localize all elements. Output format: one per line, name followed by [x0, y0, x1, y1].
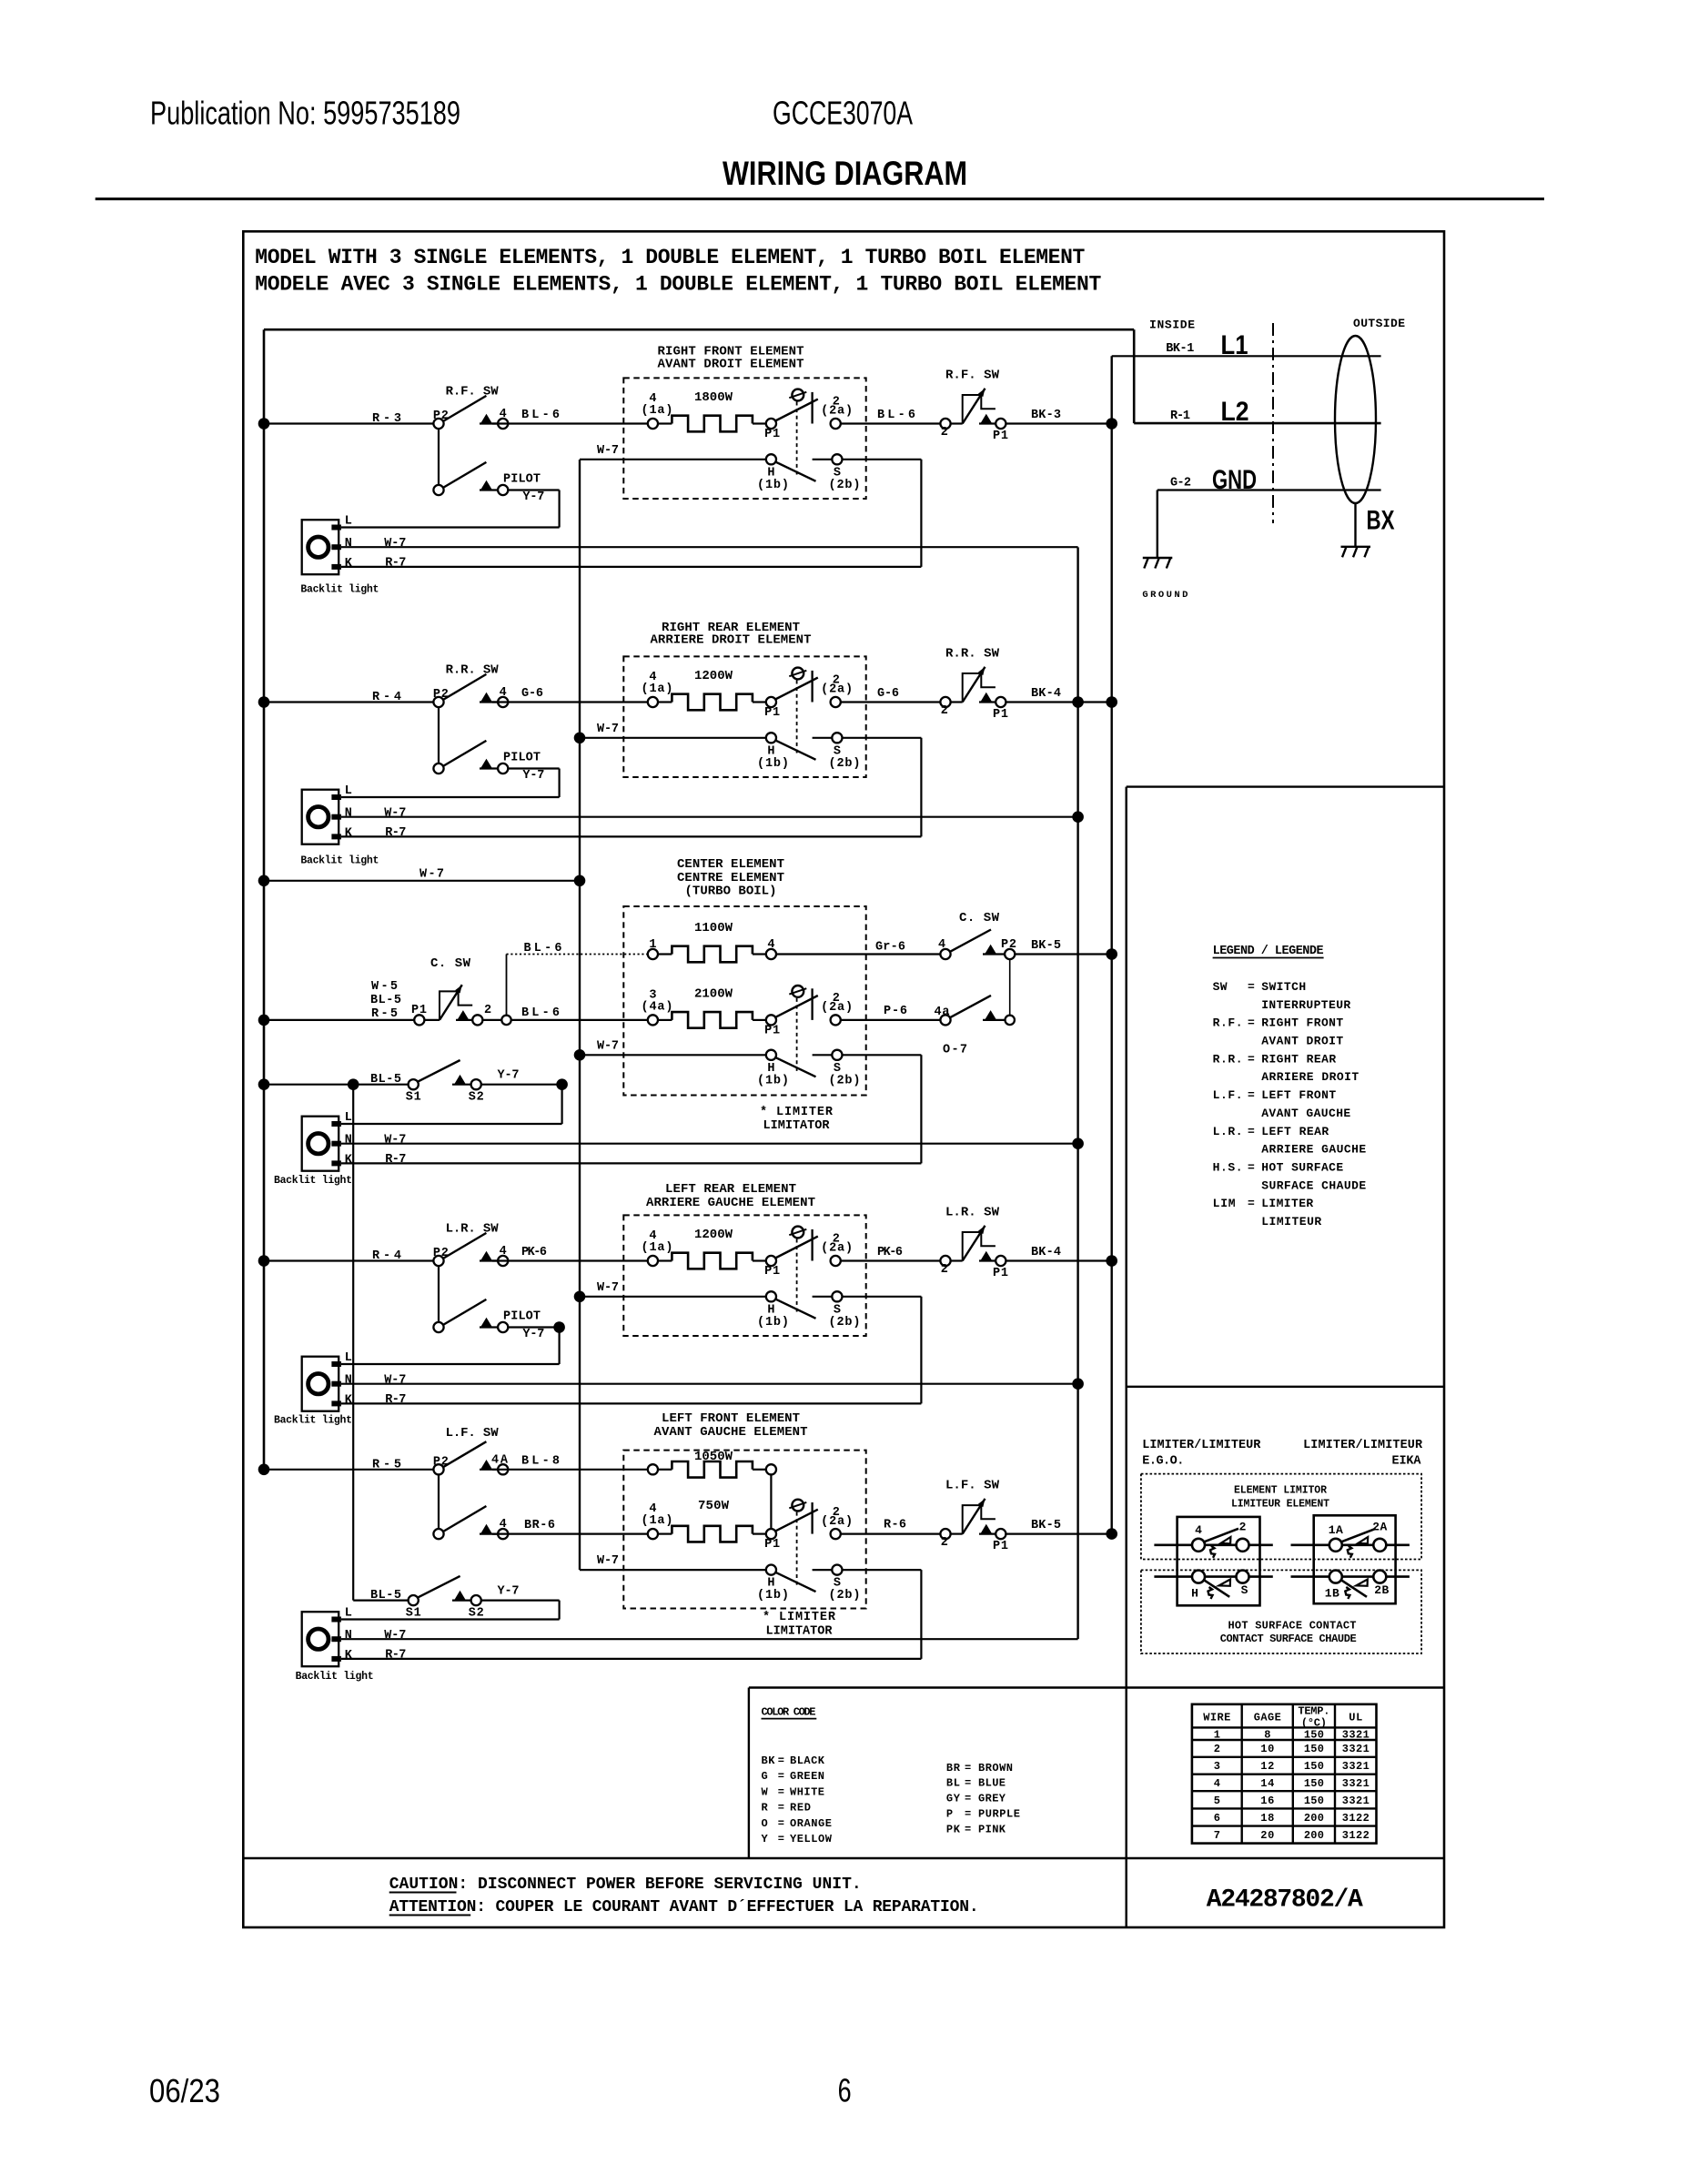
wire L2 (R-1): [1134, 422, 1380, 425]
svg-text:INTERRUPTEUR: INTERRUPTEUR: [1261, 998, 1350, 1012]
wire R-7 (lamp K): [341, 566, 921, 568]
svg-text:4: 4: [938, 938, 945, 952]
svg-text:150: 150: [1304, 1729, 1324, 1742]
svg-text:R.R. SW: R.R. SW: [945, 647, 1000, 662]
svg-text:Backlit light: Backlit light: [274, 1415, 352, 1427]
svg-text:R-7: R-7: [385, 1648, 406, 1662]
svg-text:W-7: W-7: [597, 444, 619, 458]
svg-text:MODEL WITH 3 SINGLE ELEMENTS,: MODEL WITH 3 SINGLE ELEMENTS, 1 DOUBLE E…: [255, 246, 1085, 269]
switch L.F. SW second contact: [438, 1474, 440, 1533]
svg-text:ARRIERE GAUCHE ELEMENT: ARRIERE GAUCHE ELEMENT: [646, 1196, 815, 1210]
wire R-7 (lamp K): [341, 1402, 921, 1404]
svg-text:W-7: W-7: [384, 807, 406, 821]
svg-text:Backlit light: Backlit light: [300, 584, 379, 596]
svg-text:Y-7: Y-7: [498, 1585, 520, 1599]
svg-text:O-7: O-7: [943, 1043, 967, 1057]
svg-text:K: K: [345, 826, 353, 840]
svg-text:AVANT GAUCHE: AVANT GAUCHE: [1261, 1107, 1350, 1120]
svg-text:L: L: [345, 784, 352, 798]
svg-text:PURPLE: PURPLE: [978, 1808, 1020, 1821]
svg-text:L.F.: L.F.: [1213, 1088, 1243, 1102]
backlit light L.R.: [302, 1357, 339, 1411]
wire R-3: [264, 422, 439, 424]
svg-text:P2: P2: [1001, 938, 1016, 952]
svg-text:Y-7: Y-7: [522, 1328, 544, 1341]
svg-text:G-2: G-2: [1170, 477, 1191, 490]
svg-text:CONTACT SURFACE CHAUDE: CONTACT SURFACE CHAUDE: [1220, 1633, 1357, 1645]
svg-text:=: =: [1248, 1052, 1255, 1066]
wire S return (R-7 riser): [843, 1296, 922, 1298]
svg-text:W-7: W-7: [384, 1134, 406, 1148]
svg-text:GREEN: GREEN: [790, 1770, 824, 1783]
svg-text:SURFACE CHAUDE: SURFACE CHAUDE: [1261, 1178, 1366, 1192]
svg-text:3321: 3321: [1342, 1760, 1370, 1773]
limiter wires top row: [1154, 1544, 1272, 1547]
svg-text:SWITCH: SWITCH: [1261, 980, 1306, 994]
svg-text:W-7: W-7: [597, 1281, 619, 1295]
svg-text:1800W: 1800W: [694, 390, 733, 405]
svg-text:3321: 3321: [1342, 1743, 1370, 1755]
svg-text:L.R.: L.R.: [1213, 1125, 1243, 1138]
svg-text:(TURBO BOIL): (TURBO BOIL): [685, 885, 777, 899]
wire bus W-7 neutral (x=1184): [1076, 547, 1078, 1639]
svg-text:P1: P1: [764, 1265, 780, 1279]
backlit light L.F.: [302, 1612, 339, 1666]
contacts H / S: [766, 1050, 776, 1060]
element R.R. dashed box: [623, 656, 865, 777]
svg-text:L: L: [345, 1351, 352, 1365]
svg-text:CENTER ELEMENT: CENTER ELEMENT: [677, 857, 784, 872]
svg-text:=: =: [778, 1817, 784, 1830]
svg-text:(1b): (1b): [757, 479, 789, 492]
svg-text:ARRIERE DROIT ELEMENT: ARRIERE DROIT ELEMENT: [651, 633, 812, 648]
wire BR-6: [492, 1532, 652, 1534]
svg-text:BL-5: BL-5: [370, 1589, 401, 1603]
contact P1 + thermostat: [766, 1529, 776, 1539]
wire L2 drop to R-1: [1133, 329, 1136, 423]
svg-text:W-7: W-7: [597, 1039, 619, 1053]
svg-text:N: N: [345, 537, 352, 551]
svg-text:K: K: [345, 1649, 353, 1663]
svg-text:(1b): (1b): [757, 1316, 789, 1330]
svg-text:ORANGE: ORANGE: [790, 1817, 832, 1830]
svg-text:PILOT: PILOT: [503, 473, 541, 487]
contacts H / S: [766, 733, 776, 743]
svg-text:=: =: [965, 1793, 971, 1805]
wire BK-5: [1006, 1532, 1111, 1534]
svg-text:(2b): (2b): [829, 757, 861, 771]
svg-text:BL: BL: [946, 1777, 960, 1790]
svg-text:06/23: 06/23: [149, 2072, 220, 2109]
svg-text:PINK: PINK: [978, 1823, 1006, 1835]
wire O-7 / R-7 return: [843, 1054, 922, 1056]
limiter EIKA solid box: [1314, 1515, 1396, 1603]
svg-text:(2a): (2a): [821, 1001, 853, 1015]
pilot switch: [438, 429, 440, 490]
svg-text:LEGEND / LEGENDE: LEGEND / LEGENDE: [1213, 945, 1324, 958]
svg-text:18: 18: [1260, 1812, 1274, 1825]
wire W-7 (lamp N): [341, 816, 1078, 818]
svg-text:WHITE: WHITE: [790, 1785, 824, 1798]
svg-text:L.R. SW: L.R. SW: [945, 1206, 1000, 1220]
svg-text:P1: P1: [764, 1025, 780, 1038]
svg-text:2: 2: [941, 1536, 948, 1550]
svg-text:8: 8: [1264, 1729, 1270, 1742]
svg-text:=: =: [1248, 980, 1255, 994]
svg-text:LIMITER/LIMITEUR: LIMITER/LIMITEUR: [1142, 1439, 1261, 1452]
wire R-5 (W-5/BL-5/R-5): [264, 1019, 414, 1021]
svg-text:BK-5: BK-5: [1031, 939, 1061, 953]
svg-text:200: 200: [1304, 1829, 1324, 1842]
switch S1/S2: [264, 1084, 409, 1086]
svg-text:4: 4: [1195, 1523, 1202, 1537]
element limitor dotted box: [1141, 1474, 1421, 1560]
svg-text:INSIDE: INSIDE: [1149, 318, 1195, 332]
wire W-7 to H contact: [580, 1054, 766, 1056]
svg-text:Y-7: Y-7: [498, 1069, 520, 1083]
svg-text:(2b): (2b): [829, 1074, 861, 1087]
wire W-7 (lamp N): [341, 546, 1078, 548]
svg-text:Gr-6: Gr-6: [875, 941, 905, 955]
svg-text:ELEMENT LIMITOR: ELEMENT LIMITOR: [1234, 1485, 1327, 1497]
svg-text:Backlit light: Backlit light: [296, 1671, 374, 1683]
svg-text:=: =: [965, 1823, 971, 1835]
svg-text:K: K: [345, 557, 353, 571]
svg-text:LEFT REAR: LEFT REAR: [1261, 1125, 1329, 1138]
element L.R. dashed box: [623, 1215, 865, 1336]
svg-text:(1a): (1a): [642, 1514, 673, 1528]
wire Y-7 to lamp L: [508, 489, 559, 490]
svg-text:R.F.: R.F.: [1213, 1016, 1243, 1030]
svg-text:R-3: R-3: [372, 412, 401, 426]
svg-text:H.S.: H.S.: [1213, 1161, 1243, 1175]
svg-text:WIRE: WIRE: [1203, 1711, 1230, 1724]
svg-text:=: =: [1248, 1161, 1255, 1175]
svg-text:BL-5: BL-5: [370, 1073, 401, 1087]
svg-text:W-5: W-5: [371, 980, 398, 994]
element CENTER dashed box: [623, 906, 865, 1096]
svg-text:K: K: [345, 1153, 353, 1167]
svg-text:L1: L1: [1221, 330, 1248, 360]
svg-text:150: 150: [1304, 1760, 1324, 1773]
wire BL-6: [841, 422, 945, 424]
svg-text:BK-4: BK-4: [1031, 687, 1061, 701]
switch S1/S2: [353, 1599, 408, 1601]
junction BK-4 x neutral bus: [1072, 696, 1084, 708]
svg-text:(1a): (1a): [642, 682, 673, 696]
svg-text:P1: P1: [993, 708, 1008, 722]
svg-text:R-7: R-7: [385, 556, 406, 570]
svg-text:=: =: [778, 1833, 784, 1845]
wire W-7 to H contact: [580, 737, 766, 739]
svg-text:GAGE: GAGE: [1254, 1711, 1281, 1724]
svg-text:LEFT FRONT ELEMENT: LEFT FRONT ELEMENT: [662, 1411, 800, 1426]
svg-text:S2: S2: [469, 1607, 484, 1621]
svg-text:=: =: [778, 1770, 784, 1783]
svg-text:P1: P1: [764, 706, 780, 720]
color code box: [748, 1688, 750, 1859]
svg-text:N: N: [345, 807, 352, 821]
ground symbol (chassis): [1157, 490, 1158, 559]
svg-text:R-1: R-1: [1170, 409, 1190, 423]
svg-text:=: =: [965, 1762, 971, 1774]
svg-text:5: 5: [1214, 1795, 1220, 1807]
contact P1 + thermostat: [766, 697, 776, 707]
svg-text:1: 1: [1214, 1729, 1220, 1742]
svg-text:SW: SW: [1213, 980, 1228, 994]
wire W-7 to H contact: [580, 1296, 766, 1298]
caution band: [243, 1857, 1444, 1859]
wire W-7 (lamp N): [341, 1383, 1078, 1385]
svg-text:(2a): (2a): [821, 683, 853, 697]
limiter E.G.O. solid box: [1178, 1517, 1260, 1605]
svg-text:PILOT: PILOT: [503, 1310, 541, 1324]
svg-text:=: =: [1248, 1197, 1255, 1210]
wire GND (G-2): [1157, 489, 1381, 490]
svg-text:A24287802/A: A24287802/A: [1207, 1886, 1363, 1915]
wire L1 (BK-1): [1112, 355, 1381, 357]
svg-text:P1: P1: [993, 1540, 1008, 1553]
limiter wires bottom row: [1154, 1575, 1272, 1578]
svg-text:LEFT REAR ELEMENT: LEFT REAR ELEMENT: [665, 1182, 796, 1197]
svg-text:N: N: [345, 1134, 352, 1148]
svg-text:(2a): (2a): [821, 405, 853, 419]
svg-text:RED: RED: [790, 1802, 811, 1815]
svg-text:H: H: [1191, 1587, 1198, 1601]
svg-text:Backlit light: Backlit light: [274, 1175, 352, 1187]
wire R-4: [264, 1259, 439, 1261]
svg-text:W-7: W-7: [419, 868, 444, 882]
element L.F. dashed box: [623, 1451, 865, 1609]
svg-text:7: 7: [1214, 1829, 1220, 1842]
svg-text:16: 16: [1260, 1795, 1274, 1807]
wire L2 top bus: [264, 329, 1134, 331]
svg-text:R-6: R-6: [884, 1519, 906, 1532]
svg-text:BK-1: BK-1: [1166, 342, 1194, 356]
wire R-7 (lamp K): [341, 1162, 921, 1164]
svg-text:N: N: [345, 1374, 352, 1388]
svg-text:LIMITER: LIMITER: [1261, 1197, 1313, 1210]
svg-text:2: 2: [1239, 1521, 1247, 1534]
svg-text:S: S: [1241, 1583, 1248, 1597]
svg-text:(2b): (2b): [829, 1316, 861, 1330]
contacts H / S: [766, 454, 776, 464]
svg-text:3321: 3321: [1342, 1729, 1370, 1742]
heating element 1050W: [648, 1464, 658, 1474]
svg-text:2A: 2A: [1372, 1521, 1387, 1534]
svg-text:(4a): (4a): [642, 1001, 673, 1015]
svg-text:20: 20: [1260, 1829, 1274, 1842]
svg-text:(2b): (2b): [829, 1589, 861, 1603]
wire left bus (L2 feed): [263, 329, 266, 1470]
svg-text:(2a): (2a): [821, 1515, 853, 1529]
wire gauge table: [1192, 1704, 1377, 1844]
svg-text:Publication No: 5995735189: Publication No: 5995735189: [150, 94, 460, 131]
limiter switch 1B/2B: [1329, 1571, 1342, 1583]
svg-text:UL: UL: [1349, 1711, 1362, 1724]
svg-text:2: 2: [1214, 1743, 1220, 1755]
svg-text:R-7: R-7: [385, 826, 406, 840]
svg-text:PILOT: PILOT: [503, 752, 541, 765]
wire bus L1 (right vertical): [1110, 356, 1112, 1533]
svg-text:G-6: G-6: [877, 687, 899, 701]
svg-text:GCCE3070A: GCCE3070A: [773, 94, 913, 131]
svg-text:HOT SURFACE: HOT SURFACE: [1261, 1161, 1343, 1175]
svg-text:WIRING DIAGRAM: WIRING DIAGRAM: [723, 155, 967, 192]
wire G-6: [841, 701, 945, 703]
svg-text:AVANT DROIT: AVANT DROIT: [1261, 1035, 1343, 1048]
svg-text:LIM: LIM: [1213, 1197, 1236, 1210]
svg-text:2: 2: [941, 426, 948, 440]
svg-text:P1: P1: [993, 430, 1008, 443]
svg-text:=: =: [1248, 1088, 1255, 1102]
svg-text:R-7: R-7: [385, 1393, 406, 1407]
svg-text:ARRIERE GAUCHE: ARRIERE GAUCHE: [1261, 1143, 1366, 1157]
svg-text:LEFT FRONT: LEFT FRONT: [1261, 1088, 1336, 1102]
svg-text:4a: 4a: [935, 1006, 950, 1019]
svg-text:3: 3: [1214, 1760, 1220, 1773]
svg-text:PK-6: PK-6: [521, 1246, 547, 1259]
svg-text:3321: 3321: [1342, 1777, 1370, 1790]
wire G-6: [492, 701, 652, 703]
wire PK-6: [492, 1259, 652, 1261]
svg-text:GREY: GREY: [978, 1793, 1006, 1805]
pilot switch: [438, 1266, 440, 1327]
svg-text:BR: BR: [946, 1762, 961, 1774]
svg-text:RIGHT FRONT: RIGHT FRONT: [1261, 1016, 1343, 1030]
backlit light R.F.: [302, 520, 339, 574]
svg-text:L: L: [345, 515, 352, 529]
limiter switch H/S: [1192, 1571, 1205, 1583]
svg-text:G-6: G-6: [521, 687, 543, 701]
wire R-4: [264, 701, 439, 703]
svg-text:ARRIERE DROIT: ARRIERE DROIT: [1261, 1070, 1359, 1084]
svg-text:2: 2: [484, 1004, 491, 1017]
wire BL-6 (2100W feed): [482, 1019, 652, 1021]
svg-text:GND: GND: [1212, 465, 1257, 495]
svg-text:R-5: R-5: [371, 1007, 398, 1021]
svg-text:P-6: P-6: [884, 1005, 907, 1018]
svg-text:MODELE AVEC 3 SINGLE ELEMENTS,: MODELE AVEC 3 SINGLE ELEMENTS, 1 DOUBLE …: [255, 273, 1101, 297]
svg-text:=: =: [778, 1802, 784, 1815]
svg-text:HOT SURFACE CONTACT: HOT SURFACE CONTACT: [1228, 1620, 1357, 1633]
wire W-7 (lamp N): [341, 1638, 1078, 1640]
svg-text:R-4: R-4: [372, 691, 401, 704]
svg-text:Y: Y: [762, 1833, 769, 1845]
contact P1 + thermostat: [766, 1015, 776, 1025]
wire W-7 to H contact: [580, 459, 766, 460]
svg-text:LIMITATOR: LIMITATOR: [766, 1624, 834, 1638]
backlit light CENTER: [302, 1117, 339, 1171]
svg-text:R.R.: R.R.: [1213, 1052, 1243, 1066]
svg-text:C. SW: C. SW: [959, 911, 1000, 925]
svg-text:COLOR CODE: COLOR CODE: [762, 1705, 816, 1718]
svg-text:14: 14: [1260, 1777, 1274, 1790]
wire 1050W drop: [770, 1474, 772, 1529]
wire W-7 bottom link: [264, 880, 580, 882]
svg-text:W: W: [762, 1785, 769, 1798]
svg-text:OUTSIDE: OUTSIDE: [1353, 317, 1405, 330]
svg-text:2B: 2B: [1374, 1583, 1389, 1597]
svg-text:L: L: [345, 1607, 352, 1621]
svg-text:1A: 1A: [1329, 1523, 1343, 1537]
svg-text:1200W: 1200W: [694, 669, 733, 683]
svg-text:150: 150: [1304, 1777, 1324, 1790]
wire BK-4: [1006, 701, 1111, 703]
svg-text:R-4: R-4: [372, 1249, 401, 1263]
hot surface contact dotted box: [1141, 1570, 1421, 1653]
svg-text:Backlit light: Backlit light: [300, 855, 379, 867]
svg-text:2100W: 2100W: [694, 986, 733, 1001]
svg-text:L.F. SW: L.F. SW: [945, 1479, 1000, 1493]
svg-text:L2: L2: [1221, 397, 1249, 427]
element R.F. dashed box: [623, 378, 865, 499]
wire Y-7 to lamp L: [508, 767, 559, 769]
wire R-5: [264, 1469, 439, 1471]
wire R-6: [841, 1532, 945, 1534]
svg-text:LIMITEUR ELEMENT: LIMITEUR ELEMENT: [1231, 1499, 1329, 1511]
svg-text:BR-6: BR-6: [524, 1519, 555, 1532]
svg-text:Y-7: Y-7: [522, 490, 544, 504]
svg-text:RIGHT REAR: RIGHT REAR: [1261, 1052, 1336, 1066]
svg-text:BROWN: BROWN: [978, 1762, 1013, 1774]
ground symbol BX: [1354, 503, 1356, 547]
svg-text:=: =: [778, 1785, 784, 1798]
svg-text:AVANT GAUCHE ELEMENT: AVANT GAUCHE ELEMENT: [654, 1425, 808, 1440]
svg-text:YELLOW: YELLOW: [790, 1833, 833, 1845]
BX cable ellipse: [1335, 336, 1376, 503]
svg-text:150: 150: [1304, 1743, 1324, 1755]
svg-text:=: =: [778, 1754, 784, 1767]
svg-text:R: R: [762, 1802, 769, 1815]
wire BK-5: [1015, 953, 1111, 955]
svg-text:L.R. SW: L.R. SW: [446, 1222, 500, 1237]
svg-text:(1a): (1a): [642, 1241, 673, 1255]
wire S return: [843, 1569, 922, 1571]
svg-text:CAUTION: DISCONNECT POWER BEF: CAUTION: DISCONNECT POWER BEFORE SERVICI…: [389, 1876, 862, 1894]
svg-text:E.G.O.: E.G.O.: [1142, 1455, 1184, 1469]
legend box: [1125, 787, 1127, 1927]
svg-text:1100W: 1100W: [694, 921, 733, 935]
svg-text:PK-6: PK-6: [877, 1246, 903, 1259]
switch 4a contact: [940, 1015, 950, 1025]
svg-text:ATTENTION: COUPER LE COURANT A: ATTENTION: COUPER LE COURANT AVANT D´EFF…: [389, 1898, 979, 1916]
svg-text:EIKA: EIKA: [1392, 1455, 1422, 1469]
svg-text:3122: 3122: [1342, 1812, 1370, 1825]
svg-text:P: P: [946, 1808, 953, 1821]
node BL-6 branch: [501, 1016, 510, 1025]
svg-text:AVANT DROIT ELEMENT: AVANT DROIT ELEMENT: [658, 357, 804, 371]
svg-text:LIMITATOR: LIMITATOR: [763, 1119, 831, 1133]
wire bus W-7 (x=637): [579, 460, 581, 1570]
svg-text:R-5: R-5: [372, 1458, 401, 1471]
wire BL-6 dotted (1100W feed): [507, 954, 648, 955]
wire BL-5 vertical (S1 feed): [352, 1085, 354, 1601]
svg-text:1B: 1B: [1325, 1587, 1339, 1601]
svg-text:6: 6: [1214, 1812, 1220, 1825]
wire BK-4: [1006, 1259, 1111, 1261]
svg-text:L.F. SW: L.F. SW: [446, 1426, 500, 1441]
wire Y-7 to lamp L: [508, 1326, 559, 1328]
svg-text:* LIMITER: * LIMITER: [763, 1611, 836, 1624]
svg-text:W-7: W-7: [384, 537, 406, 551]
svg-text:W-7: W-7: [597, 1554, 619, 1568]
wire R-7 (lamp K): [341, 1658, 921, 1660]
junction W-7 bus row4: [574, 1291, 586, 1303]
svg-text:6: 6: [838, 2071, 852, 2108]
svg-text:P1: P1: [764, 428, 780, 441]
svg-text:(1b): (1b): [757, 1074, 789, 1087]
